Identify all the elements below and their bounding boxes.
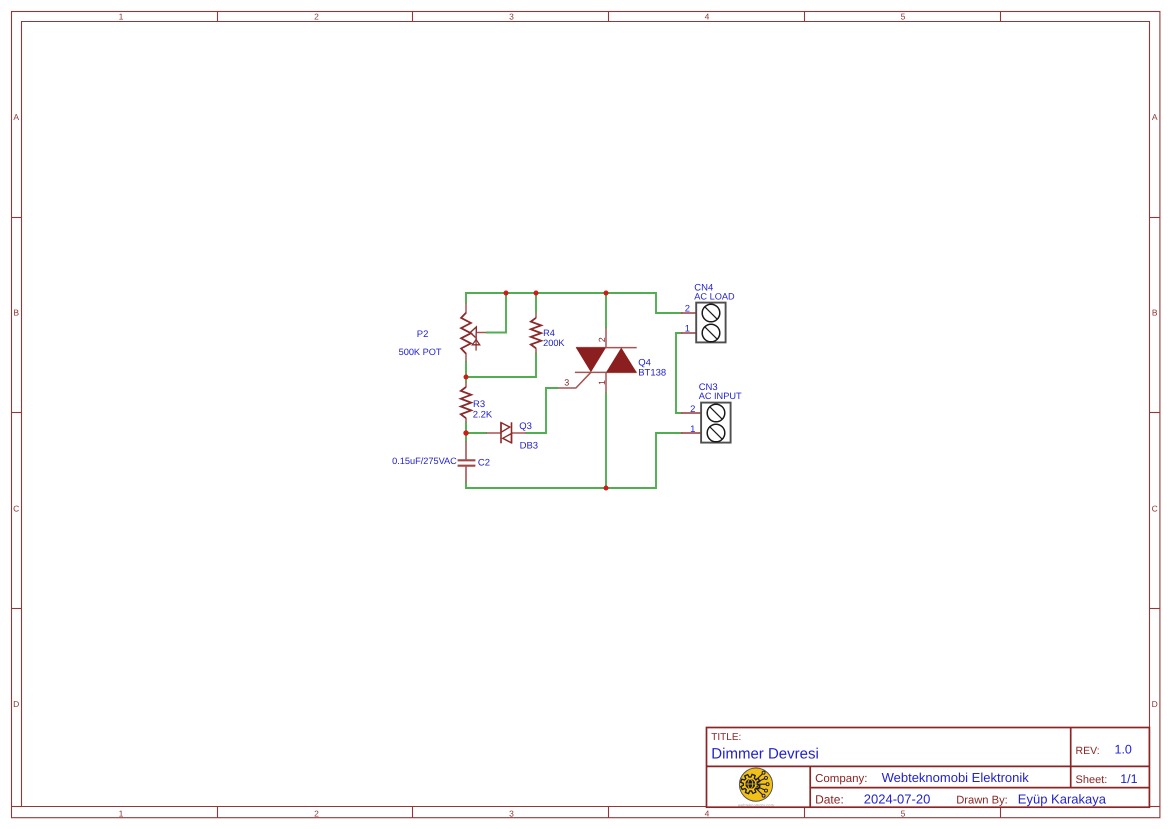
junction P2-R4-R3 node — [464, 375, 469, 380]
svg-text:5: 5 — [901, 12, 906, 22]
svg-text:TITLE:: TITLE: — [711, 732, 741, 743]
svg-text:webteknomobi.com: webteknomobi.com — [738, 803, 774, 807]
svg-text:BT138: BT138 — [638, 368, 666, 379]
wire P2 bottom to R3 top — [465, 361, 467, 383]
svg-text:B: B — [13, 308, 19, 318]
wire diac right pin to triac gate — [526, 388, 559, 433]
svg-text:Company:: Company: — [815, 773, 867, 785]
svg-text:5: 5 — [901, 808, 906, 818]
svg-text:1.0: 1.0 — [1115, 743, 1132, 757]
svg-text:Drawn By:: Drawn By: — [956, 795, 1008, 807]
svg-text:3: 3 — [564, 377, 569, 387]
svg-text:1/1: 1/1 — [1120, 772, 1137, 786]
svg-text:C: C — [1152, 504, 1158, 514]
svg-text:D: D — [1152, 699, 1158, 709]
junction at top net / MT2 — [604, 291, 609, 296]
title block — [707, 728, 1150, 808]
wire CN4 pin1 to CN3 pin2 — [676, 333, 683, 413]
svg-text:2: 2 — [314, 808, 319, 818]
svg-text:Webteknomobi Elektronik: Webteknomobi Elektronik — [882, 770, 1030, 785]
svg-text:R4: R4 — [543, 328, 555, 338]
svg-text:2.2K: 2.2K — [473, 409, 493, 420]
svg-text:1: 1 — [597, 380, 607, 385]
svg-text:Sheet:: Sheet: — [1076, 774, 1108, 786]
wire triac MT1 to bottom bus — [605, 392, 607, 488]
svg-text:0.15uF/275VAC: 0.15uF/275VAC — [392, 456, 457, 466]
title block texts — [711, 732, 1107, 807]
wire R4 top stub — [535, 293, 537, 313]
svg-text:REV:: REV: — [1076, 745, 1100, 757]
svg-text:Date:: Date: — [815, 793, 844, 807]
wire R4 bottom to P2/R3 node — [466, 353, 536, 377]
svg-text:B: B — [1152, 308, 1158, 318]
wire wiper of P2 up to top net — [486, 293, 506, 333]
svg-text:500K POT: 500K POT — [399, 347, 442, 357]
svg-text:1: 1 — [685, 324, 690, 335]
potentiometer P2 — [461, 303, 486, 361]
junction bottom bus / MT1 — [604, 486, 609, 491]
wire diac node to diac left pin — [466, 432, 487, 434]
svg-text:1: 1 — [119, 12, 124, 22]
wire triac MT2 stub — [605, 293, 607, 328]
svg-text:3: 3 — [509, 12, 514, 22]
svg-text:AC LOAD: AC LOAD — [694, 291, 735, 301]
resistor R4 — [531, 313, 541, 353]
company logo — [738, 768, 774, 807]
connector CN4 — [681, 303, 726, 343]
wire R3 bottom to diac node — [465, 422, 467, 442]
junction at top net / wiper — [504, 291, 509, 296]
svg-text:3: 3 — [509, 808, 514, 818]
svg-text:C2: C2 — [478, 457, 490, 468]
junction at top net / R4 — [534, 291, 539, 296]
svg-text:200K: 200K — [543, 338, 565, 348]
svg-text:2: 2 — [685, 304, 690, 315]
wire C2 bottom to bottom bus to CN3 pin 1 — [466, 433, 683, 488]
svg-text:1: 1 — [119, 808, 124, 818]
connector CN3 — [681, 403, 731, 443]
diac Q3 — [487, 422, 527, 443]
resistor R3 — [461, 382, 471, 422]
svg-text:2: 2 — [314, 12, 319, 22]
svg-text:Dimmer Devresi: Dimmer Devresi — [711, 745, 819, 762]
svg-text:4: 4 — [705, 12, 710, 22]
capacitor C2 — [458, 441, 476, 482]
svg-text:Eyüp Karakaya: Eyüp Karakaya — [1018, 792, 1107, 807]
triac Q4 — [559, 328, 637, 393]
svg-text:1: 1 — [690, 424, 695, 435]
junction R3-diac-C2 node — [463, 430, 468, 435]
svg-text:4: 4 — [705, 808, 710, 818]
svg-text:A: A — [13, 112, 19, 122]
svg-text:D: D — [13, 699, 19, 709]
svg-text:C: C — [13, 504, 19, 514]
svg-text:DB3: DB3 — [520, 441, 538, 452]
svg-text:P2: P2 — [417, 329, 429, 340]
wire top net: P2 top to CN4 pin 2 — [466, 293, 683, 313]
svg-text:2: 2 — [690, 404, 695, 415]
svg-text:2: 2 — [597, 337, 607, 342]
SCHEMATIC — [392, 283, 742, 491]
svg-text:Q3: Q3 — [519, 421, 532, 432]
svg-text:A: A — [1152, 112, 1158, 122]
svg-text:AC INPUT: AC INPUT — [699, 391, 742, 401]
svg-text:2024-07-20: 2024-07-20 — [864, 792, 931, 807]
